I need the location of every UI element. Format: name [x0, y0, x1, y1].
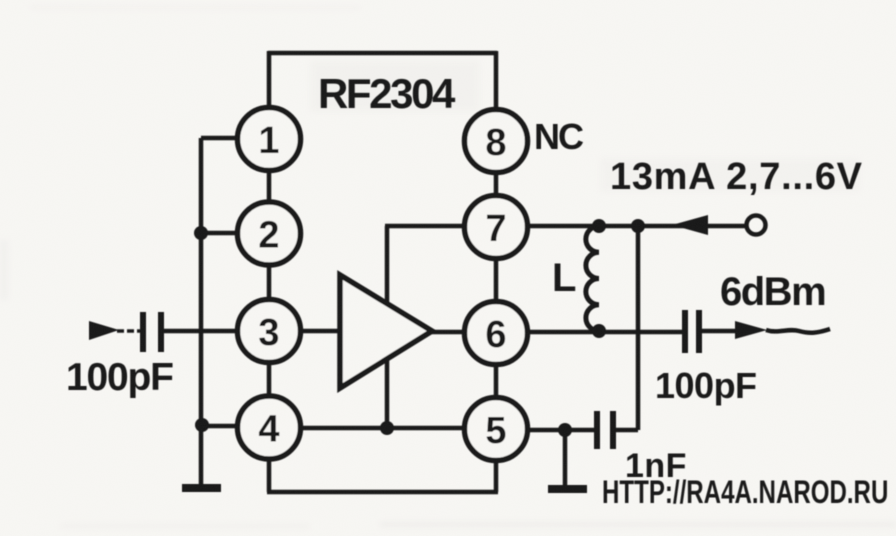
svg-text:8: 8	[485, 122, 506, 164]
svg-text:4: 4	[258, 409, 279, 451]
svg-text:HTTP://RA4A.NAROD.RU: HTTP://RA4A.NAROD.RU	[602, 475, 888, 511]
svg-text:100pF: 100pF	[66, 356, 173, 399]
svg-text:100pF: 100pF	[655, 365, 757, 406]
svg-text:2: 2	[258, 215, 279, 257]
svg-text:3: 3	[258, 312, 279, 354]
svg-text:6dBm: 6dBm	[720, 270, 825, 314]
svg-text:6: 6	[485, 314, 506, 356]
svg-text:1: 1	[258, 120, 279, 162]
svg-text:5: 5	[485, 410, 506, 452]
svg-text:7: 7	[485, 208, 506, 250]
svg-text:13mA 2,7...6V: 13mA 2,7...6V	[610, 156, 863, 198]
svg-text:L: L	[552, 256, 576, 300]
svg-text:RF2304: RF2304	[318, 70, 456, 117]
svg-text:NC: NC	[534, 116, 584, 157]
